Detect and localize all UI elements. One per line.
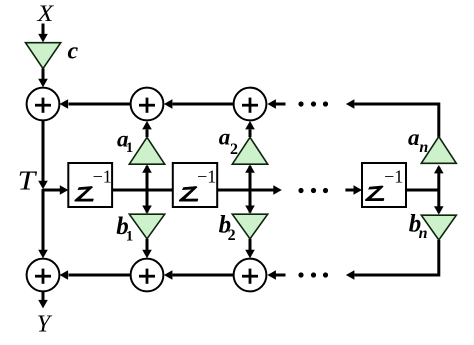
label bn [409,210,428,241]
delay Z2 (z^-1) [173,163,217,207]
wire node T to delay Z1 [43,185,68,195]
gain a2 (triangle) [232,137,267,164]
node col2 tap arrows (up to a2, down to b2) [245,164,255,214]
delay Z1 (z^-1) [68,163,112,207]
gain a1 (triangle) [129,137,164,164]
wire U2 to U1 [60,99,131,109]
wire U4 to Y [38,292,48,309]
adder U6 (bottom, col 2) [234,259,267,292]
svg-text:−1: −1 [93,167,112,187]
delay Z3 (z^-1) [362,163,406,207]
wire a2 to U3 [245,121,255,137]
adder U2 (top, col 1) [131,88,164,121]
adder U1 (top-left) [27,88,60,121]
label a2 [219,124,238,158]
wire X to gain c [38,24,48,43]
ellipsis top row [298,101,328,106]
ellipsis middle row [298,188,328,193]
svg-text:c: c [68,39,79,65]
svg-text:1: 1 [126,228,134,244]
label b2 [219,212,236,244]
adder U4 (bottom-left) [27,259,60,292]
wire ellipsis to U6 [267,270,285,280]
gain b1 (triangle) [129,214,164,239]
gain b2 (triangle) [232,214,267,239]
adder U5 (bottom, col 1) [131,259,164,292]
svg-text:a: a [219,124,231,149]
wire middle ellipsis to Z3 [345,185,362,195]
svg-text:−1: −1 [384,166,403,186]
gain bn (triangle) [421,215,456,240]
svg-text:a: a [408,125,420,150]
wire ellipsis to U3 [267,99,285,109]
svg-text:n: n [419,139,428,156]
wire Z3 to right column [406,189,440,192]
wire U1 down to node T [38,121,48,190]
svg-text:−1: −1 [197,167,216,187]
wire c to adder U1 [38,69,48,88]
gain c (triangle) [26,43,61,69]
svg-text:T: T [18,167,38,196]
gain an (triangle) [421,137,456,164]
label an [408,125,428,156]
ellipsis bottom row [298,272,328,277]
wire U6 to U5 [164,270,234,280]
label b1 [116,213,133,244]
svg-text:2: 2 [230,141,238,158]
wire a1 to U2 [142,121,152,137]
wire bn to bottom-right corner to ellipsis [346,240,439,280]
svg-text:2: 2 [228,227,236,244]
svg-text:X: X [36,1,54,26]
wire Z1 to Z2 [112,189,173,192]
wire U3 to U2 [164,99,234,109]
adder U3 (top, col 2) [234,88,267,121]
wire b1 to U5 [142,239,152,258]
node right column tap arrows (up to an, down to bn) [434,165,444,215]
wire U5 to U4 [60,270,131,280]
wire feedback top-right corner to ellipsis [346,99,439,137]
wire Z2 to middle ellipsis [217,185,282,195]
label a1 [117,126,133,156]
wire b2 to U6 [245,239,255,258]
svg-text:1: 1 [126,140,134,156]
svg-text:n: n [419,225,428,242]
wire node T down to adder U4 [38,189,48,258]
node col1 tap arrows (up to a1, down to b1) [142,164,152,214]
